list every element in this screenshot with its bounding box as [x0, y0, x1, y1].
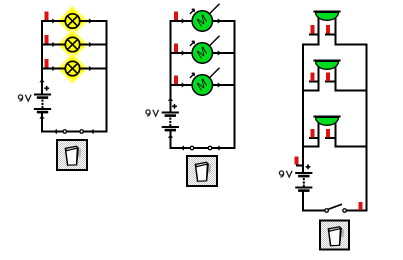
current arrow m-branch3 right	[218, 82, 221, 87]
lamp L2	[65, 37, 79, 51]
buzzer BZ3 leg left	[318, 122, 320, 148]
wire right vertical return	[106, 20, 108, 133]
switch SW2 rocker icon	[195, 162, 212, 182]
buzzer BZ2 leg right	[335, 66, 337, 92]
switch SW3 rocker icon	[328, 226, 345, 246]
current arrow branch2 right	[89, 42, 92, 47]
clip indicator motor branch 3	[174, 76, 178, 85]
wire left vertical below battery B3	[302, 191, 304, 212]
wire branch 2 (motors)	[170, 52, 236, 54]
switch SW1 contact a	[63, 130, 67, 134]
wire bottom left of switch SW3	[302, 210, 327, 212]
current arrow branch3 right	[89, 66, 92, 71]
lamp L1	[65, 14, 79, 28]
wire branch 1 top (motors)	[170, 20, 236, 22]
wire right vertical (motor circuit)	[234, 20, 236, 149]
buzzer BZ1 leg right	[335, 17, 337, 46]
buzzer BZ1 pin stub left	[309, 34, 320, 36]
motor M2	[190, 36, 220, 63]
wire left vertical below battery B2	[170, 130, 172, 149]
current arrow m-branch1 right	[218, 18, 221, 23]
lamp L2 glow	[56, 28, 88, 60]
switch SW1 rocker icon	[65, 146, 82, 166]
wire bottom return (motor circuit)	[170, 147, 236, 149]
clip indicator BZ1 right	[326, 25, 330, 34]
current arrow branch1 left	[52, 18, 55, 23]
switch SW3 contact b	[343, 209, 347, 213]
clip stub above battery B3	[296, 165, 304, 167]
motor M1	[190, 4, 220, 31]
buzzer BZ3 pin stub left	[309, 137, 320, 139]
buzzer BZ1 pin stub right	[325, 34, 337, 36]
battery B1 9V	[34, 86, 51, 114]
current arrow bottom wire right (motors)	[216, 145, 219, 150]
current arrow bottom wire left (motors)	[181, 145, 184, 150]
wire branch 1 top	[41, 20, 108, 22]
battery B3 label	[279, 171, 292, 177]
buzzer BZ3 dome	[313, 116, 340, 126]
current arrow up above battery B2	[168, 98, 173, 101]
battery B2 9V	[162, 104, 179, 131]
clip indicator BZ2 left	[311, 73, 315, 82]
switch SW3 lever (open)	[328, 204, 342, 209]
wire rung 1 right segment	[335, 44, 368, 46]
current arrow m-branch1 left	[182, 18, 185, 23]
clip indicator branch 3	[45, 59, 49, 68]
clip indicator branch 1	[45, 12, 49, 21]
clip indicator motor branch 2	[174, 44, 178, 53]
switch SW1 icon box	[57, 140, 87, 170]
wire left vertical (buzzer circuit)	[302, 44, 304, 174]
wire left vertical (battery feed)	[41, 20, 43, 95]
current arrow branch2 left	[52, 42, 55, 47]
wire branch 3	[41, 68, 108, 70]
switch SW2 contact b	[208, 146, 212, 150]
wire rung 2 left segment	[302, 90, 320, 92]
buzzer BZ3 leg right	[335, 122, 337, 148]
current arrow up below battery B1	[39, 115, 44, 118]
wire rung 1 left segment	[302, 44, 320, 46]
lamp L3	[65, 61, 79, 75]
wire rung 2 right segment	[335, 90, 368, 92]
buzzer BZ2 leg left	[318, 66, 320, 92]
current arrow branch1 right	[89, 18, 92, 23]
battery B1 label	[18, 95, 31, 101]
switch SW3 icon box	[320, 221, 349, 250]
wire branch 3 (motors)	[170, 84, 236, 86]
clip indicator BZ2 right	[326, 73, 330, 82]
wire bottom return	[41, 131, 108, 133]
wire branch 2	[41, 44, 108, 46]
switch SW3 contact a	[325, 209, 329, 213]
buzzer BZ3 pin stub right	[325, 137, 337, 139]
battery B2 label	[146, 110, 159, 116]
current arrow bottom wire right	[90, 129, 93, 134]
clip indicator above battery B3	[295, 157, 299, 165]
current arrow bottom wire left	[54, 129, 57, 134]
buzzer BZ2 pin stub right	[325, 81, 337, 83]
switch SW1 contact b	[80, 130, 84, 134]
current arrow m-branch3 left	[182, 82, 185, 87]
current arrow up above battery B1	[39, 79, 44, 82]
current arrow up below battery B2	[168, 134, 173, 137]
clip indicator motor branch 1	[174, 12, 178, 21]
clip indicator after switch SW3	[359, 202, 363, 210]
wire rung 3 right segment	[335, 146, 368, 148]
clip indicator branch 2	[45, 35, 49, 44]
switch SW2 icon box	[187, 156, 217, 186]
wire right vertical (buzzer circuit)	[366, 44, 368, 212]
clip indicator BZ3 right	[326, 129, 330, 138]
motor M3	[190, 68, 220, 95]
wire bottom right of switch SW3	[345, 210, 368, 212]
buzzer BZ2 pin stub left	[309, 81, 320, 83]
current arrow branch3 left	[52, 66, 55, 71]
clip indicator BZ1 left	[311, 25, 315, 34]
lamp L1 glow	[56, 5, 88, 37]
switch SW2 contact a	[190, 146, 194, 150]
buzzer BZ1 dome	[313, 11, 340, 21]
wire left vertical below battery	[41, 112, 43, 133]
lamp L3 glow	[56, 52, 88, 84]
wire rung 3 left segment	[302, 146, 320, 148]
clip indicator BZ3 left	[311, 129, 315, 138]
buzzer BZ2 dome	[313, 60, 340, 70]
buzzer BZ1 leg left	[318, 17, 320, 46]
current arrow m-branch2 right	[218, 50, 221, 55]
current arrow m-branch2 left	[182, 50, 185, 55]
battery B3 9V	[295, 164, 312, 192]
wire left vertical (motor circuit)	[170, 20, 172, 113]
